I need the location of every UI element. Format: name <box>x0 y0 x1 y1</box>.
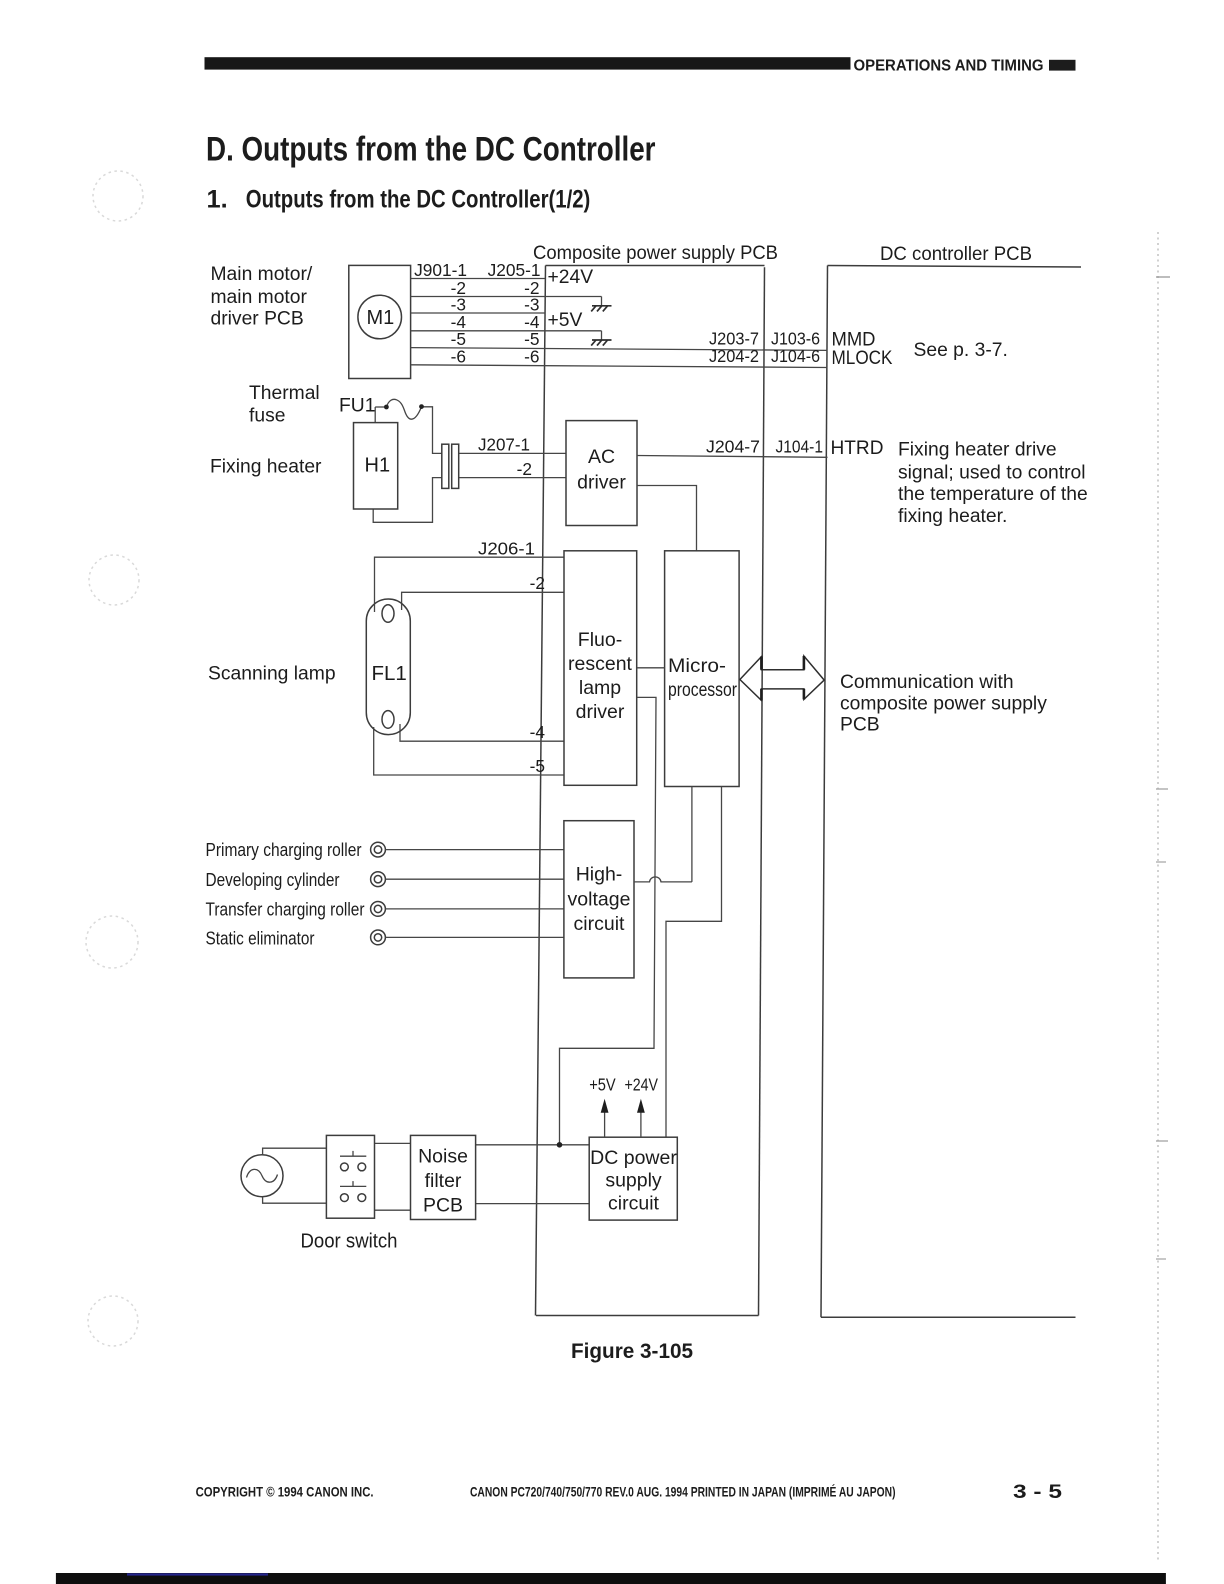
svg-text:signal; used to control: signal; used to control <box>898 462 1086 483</box>
svg-text:supply: supply <box>605 1170 662 1192</box>
svg-text:+5V: +5V <box>589 1074 616 1094</box>
svg-text:Composite power supply PCB: Composite power supply PCB <box>533 243 778 264</box>
svg-text:PCB: PCB <box>840 715 880 736</box>
svg-text:composite power supply: composite power supply <box>840 694 1047 715</box>
svg-text:fixing heater.: fixing heater. <box>898 506 1007 527</box>
svg-text:Micro-: Micro- <box>668 656 726 677</box>
svg-text:Figure 3-105: Figure 3-105 <box>571 1340 693 1363</box>
svg-text:+24V: +24V <box>625 1074 659 1094</box>
svg-text:COPYRIGHT © 1994 CANON INC.: COPYRIGHT © 1994 CANON INC. <box>196 1485 374 1500</box>
svg-text:circuit: circuit <box>608 1193 660 1215</box>
svg-text:DC power: DC power <box>590 1147 677 1169</box>
svg-text:filter: filter <box>425 1170 462 1192</box>
svg-text:PCB: PCB <box>423 1195 463 1217</box>
svg-text:M1: M1 <box>367 307 395 329</box>
svg-text:voltage: voltage <box>568 889 631 911</box>
svg-text:1.: 1. <box>207 185 228 213</box>
svg-text:DC controller PCB: DC controller PCB <box>880 244 1032 265</box>
svg-text:the temperature of the: the temperature of the <box>898 484 1088 505</box>
svg-text:OPERATIONS AND TIMING: OPERATIONS AND TIMING <box>854 58 1044 75</box>
svg-text:Primary charging roller: Primary charging roller <box>206 839 362 860</box>
svg-text:Outputs from the DC Controller: Outputs from the DC Controller(1/2) <box>246 185 591 213</box>
svg-text:circuit: circuit <box>574 913 626 935</box>
svg-text:Fixing heater: Fixing heater <box>210 457 322 478</box>
svg-text:D. Outputs from the DC Control: D. Outputs from the DC Controller <box>206 130 656 168</box>
svg-text:MLOCK: MLOCK <box>832 348 893 369</box>
svg-text:Thermal: Thermal <box>249 383 320 404</box>
svg-text:HTRD: HTRD <box>831 438 884 459</box>
svg-text:main motor: main motor <box>211 287 308 308</box>
svg-text:See p. 3-7.: See p. 3-7. <box>914 340 1008 361</box>
svg-text:FL1: FL1 <box>372 662 407 685</box>
svg-text:Transfer charging roller: Transfer charging roller <box>206 899 365 920</box>
svg-text:-2: -2 <box>517 459 532 479</box>
svg-text:Communication with: Communication with <box>840 672 1014 693</box>
svg-text:-2: -2 <box>530 573 545 593</box>
svg-text:-6: -6 <box>524 346 539 366</box>
svg-text:3 - 5: 3 - 5 <box>1013 1481 1062 1503</box>
svg-text:+5V: +5V <box>548 310 583 331</box>
svg-text:Main motor/: Main motor/ <box>211 264 313 285</box>
svg-text:High-: High- <box>576 864 623 886</box>
svg-text:FU1: FU1 <box>339 396 375 417</box>
svg-text:-4: -4 <box>530 722 546 742</box>
svg-text:J207-1: J207-1 <box>478 435 530 455</box>
svg-text:J206-1: J206-1 <box>478 538 535 558</box>
svg-text:rescent: rescent <box>568 653 633 675</box>
svg-text:+24V: +24V <box>548 267 594 288</box>
svg-text:Developing cylinder: Developing cylinder <box>206 869 340 890</box>
svg-text:driver: driver <box>576 701 625 723</box>
svg-text:CANON PC720/740/750/770 REV.0: CANON PC720/740/750/770 REV.0 AUG. 1994 … <box>470 1484 896 1500</box>
svg-text:J901-1: J901-1 <box>414 260 467 280</box>
svg-text:AC: AC <box>588 446 615 468</box>
svg-text:Door switch: Door switch <box>301 1230 398 1253</box>
svg-text:Noise: Noise <box>418 1145 468 1167</box>
svg-text:driver: driver <box>577 472 626 494</box>
svg-text:lamp: lamp <box>579 677 621 699</box>
svg-text:Static eliminator: Static eliminator <box>206 928 315 949</box>
svg-text:processor: processor <box>668 680 738 701</box>
svg-text:-6: -6 <box>451 346 466 366</box>
svg-text:J104-1: J104-1 <box>776 437 824 457</box>
svg-text:Scanning lamp: Scanning lamp <box>208 664 336 685</box>
svg-text:H1: H1 <box>365 455 391 477</box>
svg-text:Fixing heater drive: Fixing heater drive <box>898 440 1057 461</box>
svg-text:J205-1: J205-1 <box>488 260 541 280</box>
svg-text:J204-7: J204-7 <box>706 437 760 457</box>
svg-text:J204-2: J204-2 <box>709 346 759 366</box>
svg-text:driver PCB: driver PCB <box>211 309 304 330</box>
svg-text:J104-6: J104-6 <box>771 346 820 366</box>
svg-text:Fluo-: Fluo- <box>578 629 622 651</box>
svg-text:-5: -5 <box>530 756 545 776</box>
svg-text:fuse: fuse <box>249 406 285 427</box>
